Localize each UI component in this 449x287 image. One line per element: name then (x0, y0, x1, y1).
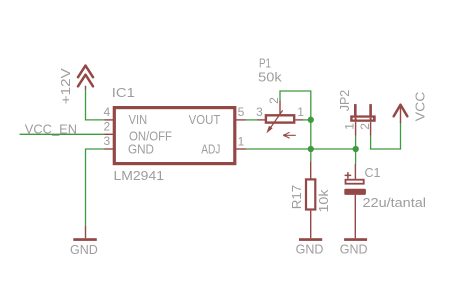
svg-text:VOUT: VOUT (189, 113, 221, 127)
pin 2 ON/OFF stub (105, 133, 115, 135)
svg-text:1: 1 (297, 105, 304, 119)
svg-text:2: 2 (104, 120, 111, 134)
svg-text:50k: 50k (258, 70, 282, 84)
pin 1 ADJ stub (235, 148, 246, 150)
svg-text:1: 1 (342, 123, 356, 130)
wire C1 node down to C1 (355, 149, 357, 164)
resistor R17 (306, 162, 315, 239)
P1 pin 2 stub (279, 101, 281, 115)
ground GND left (70, 226, 98, 257)
wire JP2 pin 2 to VCC arrow (371, 122, 401, 150)
svg-text:GND: GND (70, 243, 98, 257)
P1 adjust arrow (284, 132, 296, 138)
svg-text:GND: GND (340, 242, 368, 256)
svg-text:GND: GND (128, 143, 154, 157)
wire P1 pin 1 to output node (303, 119, 311, 121)
svg-text:2: 2 (267, 97, 281, 104)
svg-text:22u/tantal: 22u/tantal (363, 196, 427, 210)
junction node C1/JP2 (353, 146, 359, 152)
wire P1 pin 2 loop to output node (280, 91, 311, 120)
junction node ADJ/R17 (308, 146, 314, 152)
svg-text:4: 4 (104, 105, 111, 119)
wire JP2 pin 1 to C1 node (355, 136, 357, 150)
svg-text:+12V: +12V (59, 67, 73, 104)
svg-text:ON/OFF: ON/OFF (129, 130, 172, 144)
svg-text:VCC: VCC (413, 92, 427, 122)
svg-text:5: 5 (238, 105, 245, 119)
jumper JP2 (350, 104, 376, 135)
P1 resistor body (266, 115, 294, 122)
svg-text:P1: P1 (259, 56, 271, 70)
pin 3 GND stub (105, 148, 115, 150)
pin 4 VIN stub (105, 119, 115, 121)
svg-text:JP2: JP2 (338, 90, 352, 112)
svg-text:ADJ: ADJ (201, 142, 220, 156)
supply symbol VCC (394, 105, 408, 123)
P1 pin 3 stub (258, 119, 266, 121)
IC IC1 voltage regulator LM2941 body (105, 108, 247, 164)
junction node pot output (308, 117, 314, 123)
pin 5 VOUT stub (235, 119, 246, 121)
wire IC1 GND pin 3 to ground (86, 149, 106, 226)
ground GND under R17 (296, 238, 324, 256)
wire output node down to ADJ net (310, 120, 312, 162)
potentiometer P1 (258, 101, 304, 139)
wire net VCC_EN to IC1 ON/OFF pin 2 (20, 133, 105, 135)
svg-text:3: 3 (104, 134, 111, 148)
svg-text:10k: 10k (317, 189, 331, 213)
ground GND under C1 (340, 238, 368, 256)
wire IC1 ADJ to C1 node (246, 148, 356, 150)
wire +12V to IC1 VIN pin 4 (86, 89, 106, 120)
svg-text:C1: C1 (365, 166, 381, 180)
P1 pin 1 stub (295, 119, 303, 121)
wire IC1 VOUT to P1 pin 3 (246, 119, 258, 121)
svg-text:1: 1 (238, 134, 245, 148)
svg-text:3: 3 (256, 105, 263, 119)
svg-text:IC1: IC1 (112, 86, 135, 100)
svg-text:2: 2 (358, 123, 372, 130)
svg-text:GND: GND (296, 242, 324, 256)
svg-text:LM2941: LM2941 (114, 169, 165, 183)
capacitor C1 polarized (344, 164, 366, 238)
svg-text:R17: R17 (290, 185, 304, 210)
P1 wiper arrow (269, 110, 282, 129)
svg-text:VIN: VIN (129, 113, 148, 127)
supply symbol +12V (78, 66, 93, 90)
